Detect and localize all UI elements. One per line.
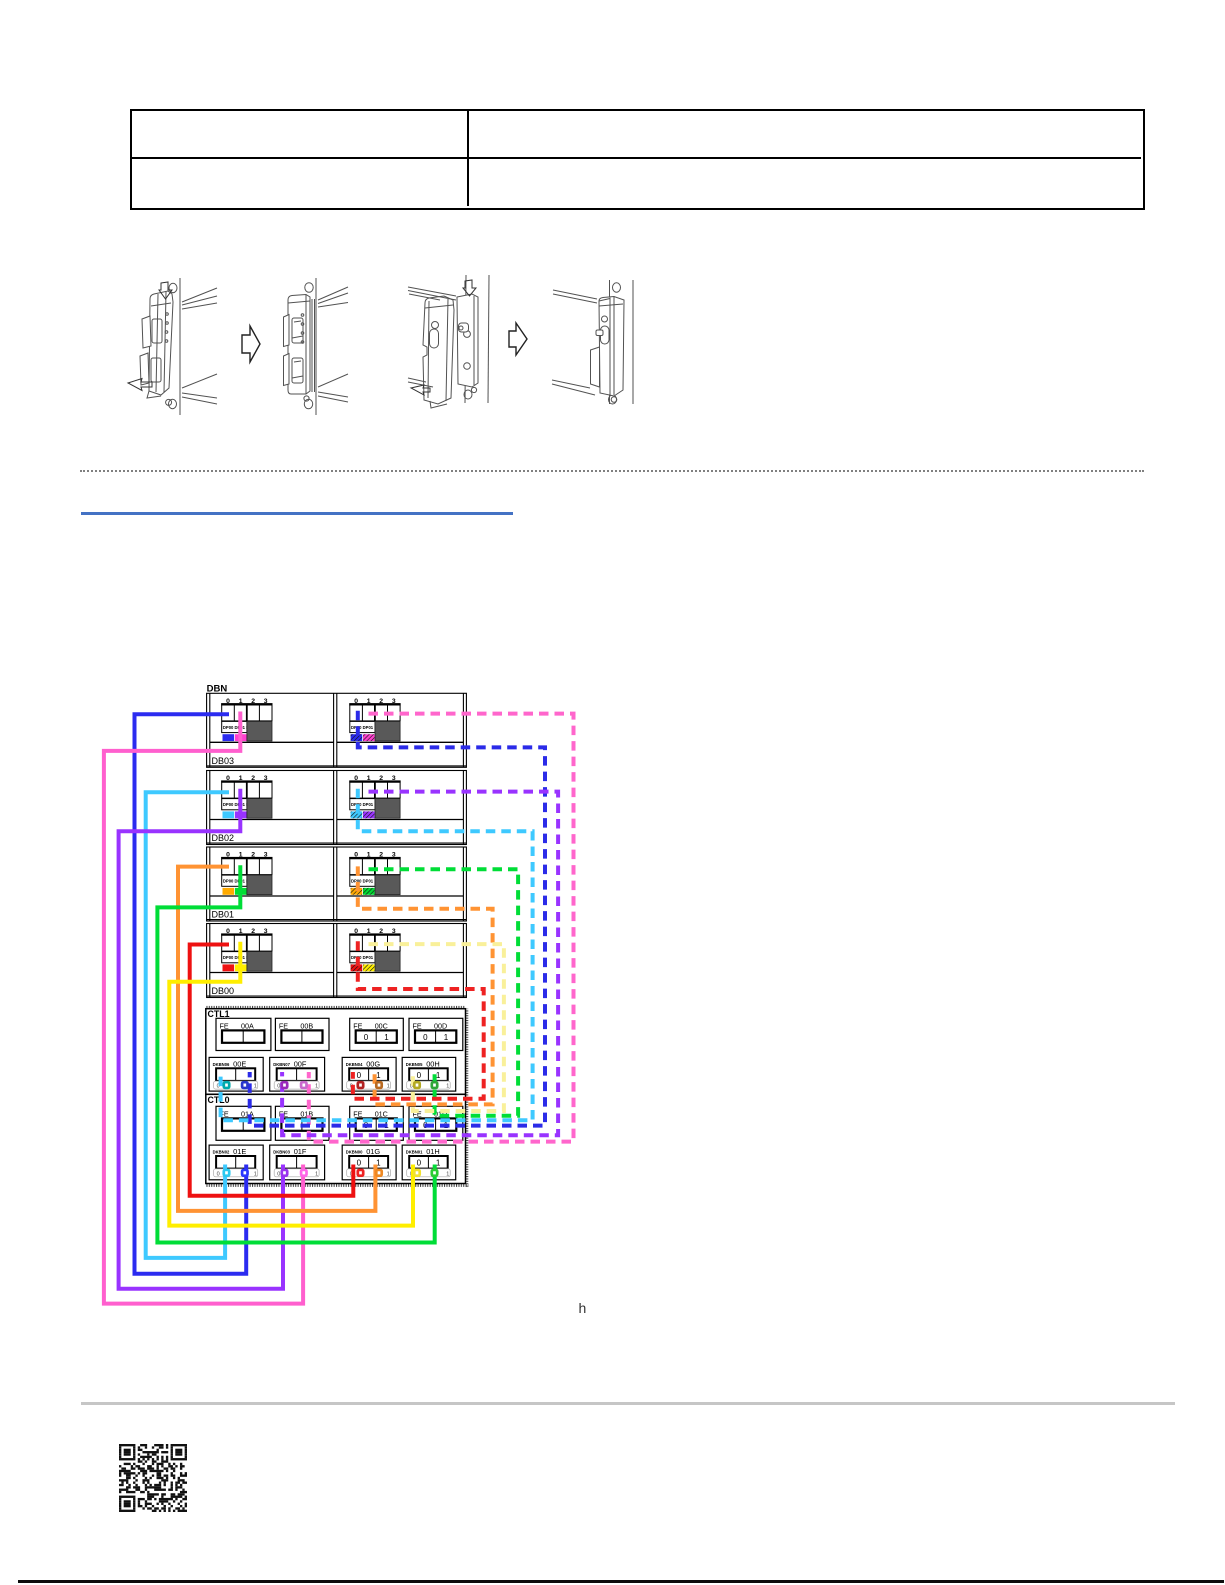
svg-text:DP00 DP01 P: DP00 DP01 P — [351, 802, 377, 807]
svg-text:0: 0 — [357, 1071, 362, 1080]
svg-text:DKBN00: DKBN00 — [346, 1150, 363, 1155]
svg-text:DP00 DP01 P: DP00 DP01 P — [223, 802, 249, 807]
svg-text:CTL0: CTL0 — [208, 1095, 230, 1105]
svg-text:FE: FE — [220, 1021, 229, 1030]
svg-text:DP00 DP01 P: DP00 DP01 P — [351, 955, 377, 960]
svg-text:DB03: DB03 — [212, 756, 235, 766]
svg-text:DP00 DP01 P: DP00 DP01 P — [351, 725, 377, 730]
svg-text:DB00: DB00 — [212, 986, 235, 996]
svg-text:DKBN07: DKBN07 — [273, 1062, 290, 1067]
svg-text:1: 1 — [446, 1084, 449, 1090]
svg-text:0: 0 — [423, 1033, 428, 1042]
svg-text:00E: 00E — [233, 1059, 246, 1068]
svg-text:00G: 00G — [366, 1059, 380, 1068]
svg-text:DKBN02: DKBN02 — [213, 1150, 230, 1155]
svg-text:00B: 00B — [300, 1021, 313, 1030]
svg-text:0: 0 — [277, 1084, 280, 1090]
svg-text:0: 0 — [357, 1159, 362, 1168]
svg-text:0: 0 — [364, 1033, 369, 1042]
svg-text:1: 1 — [387, 1084, 390, 1090]
svg-text:1: 1 — [436, 1071, 441, 1080]
svg-text:DP00 DP01 P: DP00 DP01 P — [351, 879, 377, 884]
svg-text:DKBN01: DKBN01 — [406, 1150, 423, 1155]
svg-text:FE: FE — [279, 1021, 288, 1030]
svg-text:1: 1 — [315, 1171, 318, 1177]
svg-text:01E: 01E — [233, 1147, 246, 1156]
svg-text:1: 1 — [315, 1084, 318, 1090]
svg-text:00A: 00A — [241, 1021, 254, 1030]
svg-text:0: 0 — [417, 1159, 422, 1168]
svg-text:1: 1 — [446, 1171, 449, 1177]
svg-text:DKBN05: DKBN05 — [406, 1062, 423, 1067]
svg-text:DB01: DB01 — [212, 910, 235, 920]
svg-text:DKBN04: DKBN04 — [346, 1062, 363, 1067]
svg-text:DP00 DP01 P: DP00 DP01 P — [223, 955, 249, 960]
svg-text:CTL1: CTL1 — [208, 1009, 230, 1019]
svg-text:01F: 01F — [294, 1147, 307, 1156]
svg-text:1: 1 — [384, 1033, 389, 1042]
svg-text:0: 0 — [277, 1171, 280, 1177]
svg-text:FE: FE — [353, 1021, 362, 1030]
svg-text:01G: 01G — [366, 1147, 380, 1156]
svg-text:00D: 00D — [434, 1021, 447, 1030]
svg-text:1: 1 — [387, 1171, 390, 1177]
svg-text:0: 0 — [217, 1171, 220, 1177]
svg-text:0: 0 — [417, 1071, 422, 1080]
svg-text:01C: 01C — [375, 1109, 388, 1118]
svg-text:01H: 01H — [426, 1147, 440, 1156]
svg-text:DP00 DP01 P: DP00 DP01 P — [223, 725, 249, 730]
svg-text:1: 1 — [254, 1171, 257, 1177]
svg-text:DKBN06: DKBN06 — [213, 1062, 230, 1067]
svg-text:DP00 DP01 P: DP00 DP01 P — [223, 879, 249, 884]
svg-text:00H: 00H — [426, 1059, 440, 1068]
svg-text:FE: FE — [353, 1109, 362, 1118]
svg-text:DB02: DB02 — [212, 833, 235, 843]
svg-text:1: 1 — [444, 1033, 449, 1042]
svg-text:1: 1 — [376, 1071, 381, 1080]
svg-text:FE: FE — [413, 1021, 422, 1030]
svg-text:DKBN03: DKBN03 — [273, 1150, 290, 1155]
svg-text:1: 1 — [254, 1084, 257, 1090]
svg-text:00F: 00F — [294, 1059, 307, 1068]
svg-text:00C: 00C — [375, 1021, 388, 1030]
svg-text:01A: 01A — [241, 1109, 254, 1118]
